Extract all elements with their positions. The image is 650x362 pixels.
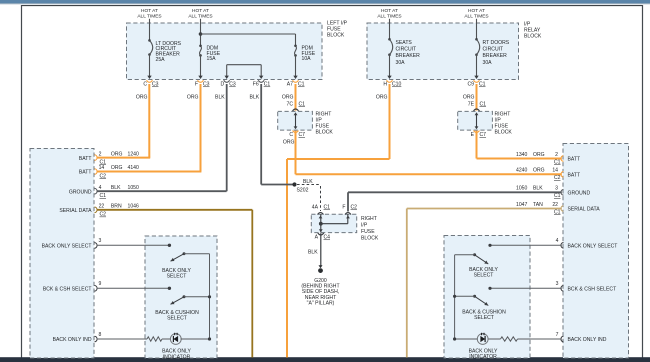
svg-text:ORG: ORG bbox=[283, 140, 295, 146]
svg-text:1050: 1050 bbox=[128, 185, 139, 191]
switch: back only select (right) bbox=[473, 253, 476, 256]
wire ORG 1240: LT DOORS breaker to left module BATT pin 2 bbox=[148, 84, 150, 158]
svg-text:C2: C2 bbox=[351, 205, 358, 211]
node: DDM feed junction bbox=[199, 32, 203, 36]
svg-text:BATT: BATT bbox=[568, 173, 581, 179]
wire BLK (dashed): S202 to right I/P fuse block 4A-C1 bbox=[297, 184, 321, 186]
svg-text:F: F bbox=[342, 205, 345, 211]
svg-text:22: 22 bbox=[99, 204, 105, 210]
svg-text:C1: C1 bbox=[299, 101, 306, 107]
svg-text:RT DOORS: RT DOORS bbox=[483, 40, 510, 46]
node: ground bus junction bbox=[319, 222, 323, 226]
svg-text:"A" PILLAR): "A" PILLAR) bbox=[307, 300, 335, 306]
wire: through left segment of right I/P fuse block bbox=[295, 113, 297, 129]
left seat switch assembly box bbox=[145, 236, 217, 358]
left module pin 14 BATT ORG 4140 bbox=[95, 169, 98, 175]
svg-text:SERIAL DATA: SERIAL DATA bbox=[568, 207, 601, 213]
left module pin 4 GROUND BLK 1050 bbox=[95, 188, 98, 194]
svg-text:7E: 7E bbox=[468, 101, 475, 107]
svg-text:BLOCK: BLOCK bbox=[495, 130, 513, 136]
wire BLK 1050: left module GROUND pin 4 up to D-C3 bbox=[97, 190, 227, 192]
svg-text:30A: 30A bbox=[483, 60, 493, 66]
pin F connector C3 exit bbox=[198, 80, 204, 82]
right module pin 3 BCK &amp; CSH SELECT bbox=[561, 286, 564, 292]
wire ORG 4240: right I/P fuse block C-C7 to right module BATT pin 14 bbox=[295, 131, 297, 175]
svg-text:BLK: BLK bbox=[215, 95, 225, 101]
svg-text:SELECT: SELECT bbox=[474, 315, 494, 321]
svg-text:22: 22 bbox=[552, 202, 558, 208]
svg-text:INDICATOR: INDICATOR bbox=[469, 354, 497, 360]
fuse DDM 15A bbox=[200, 19, 202, 46]
svg-text:4: 4 bbox=[556, 238, 559, 244]
left module pin 3 BACK ONLY SELECT bbox=[95, 243, 98, 249]
left module pin 8 BACK ONLY IND bbox=[95, 336, 98, 342]
left module pin 2 BATT ORG 1240 bbox=[95, 155, 98, 161]
svg-text:14: 14 bbox=[552, 168, 558, 174]
svg-text:BATT: BATT bbox=[568, 157, 581, 163]
svg-text:HOT AT: HOT AT bbox=[192, 8, 209, 14]
right module pin 2 BATT ORG 1340 bbox=[561, 156, 564, 162]
svg-text:ORG: ORG bbox=[463, 95, 475, 101]
svg-text:BLK: BLK bbox=[308, 250, 318, 256]
svg-text:ORG: ORG bbox=[376, 95, 388, 101]
svg-text:FUSE: FUSE bbox=[361, 229, 375, 235]
svg-text:1047: 1047 bbox=[516, 202, 527, 208]
wire: right module pin 7 to back only indicator bbox=[518, 338, 562, 340]
svg-text:BCK & CSH SELECT: BCK & CSH SELECT bbox=[568, 287, 617, 293]
fuse PDM 10A bbox=[295, 34, 297, 46]
node: bus end at indicator (right) bbox=[453, 337, 456, 340]
wire BLK: A-C4 to ground G200 bbox=[320, 233, 322, 266]
svg-text:1050: 1050 bbox=[516, 186, 527, 192]
wire BLK: F6-C1 down to splice S202 bbox=[260, 84, 262, 185]
switch: back only select (left) bbox=[183, 252, 186, 255]
svg-text:C: C bbox=[143, 82, 147, 88]
svg-text:HOT AT: HOT AT bbox=[468, 8, 485, 14]
resistor: right indicator series resistor bbox=[501, 337, 518, 341]
svg-text:7C: 7C bbox=[286, 101, 293, 107]
svg-text:C3: C3 bbox=[203, 82, 210, 88]
LED: back only indicator (left) bbox=[170, 334, 181, 345]
node: bus junction at back & cushion switch (left) bbox=[208, 295, 211, 298]
svg-text:SEATS: SEATS bbox=[396, 40, 413, 46]
svg-text:BLOCK: BLOCK bbox=[316, 130, 334, 136]
wire: left module pin 8 to back only indicator bbox=[97, 338, 148, 340]
svg-text:3: 3 bbox=[555, 186, 558, 192]
svg-text:SELECT: SELECT bbox=[474, 272, 494, 278]
right module pin 22 SERIAL DATA TAN 1047 bbox=[561, 206, 564, 212]
svg-text:A7: A7 bbox=[287, 82, 293, 88]
svg-text:C1: C1 bbox=[298, 82, 305, 88]
svg-text:C10: C10 bbox=[392, 82, 402, 88]
svg-text:I/P: I/P bbox=[361, 223, 368, 229]
svg-text:GROUND: GROUND bbox=[568, 191, 591, 197]
svg-text:C7: C7 bbox=[480, 132, 487, 138]
wire: through right segment of right I/P fuse block bbox=[476, 113, 478, 129]
svg-text:D: D bbox=[221, 82, 225, 88]
svg-text:C2: C2 bbox=[100, 212, 107, 218]
svg-text:30A: 30A bbox=[396, 60, 406, 66]
right module pin 14 BATT ORG 4240 bbox=[561, 172, 564, 178]
svg-text:BRN: BRN bbox=[111, 204, 122, 210]
wire ORG: PDM fuse A7-C1 down to right I/P fuse block 7C-C1 bbox=[295, 84, 297, 111]
wire: right switch common bus bbox=[454, 255, 456, 339]
svg-text:BACK ONLY IND: BACK ONLY IND bbox=[568, 337, 607, 343]
svg-text:ORG: ORG bbox=[111, 165, 123, 171]
svg-text:ORG: ORG bbox=[282, 95, 294, 101]
svg-text:2: 2 bbox=[555, 152, 558, 158]
svg-text:BACK ONLY SELECT: BACK ONLY SELECT bbox=[568, 244, 618, 250]
wire: right module pin 4 to back only select switch bbox=[490, 244, 562, 246]
svg-text:ORG: ORG bbox=[187, 95, 199, 101]
svg-text:25A: 25A bbox=[156, 57, 166, 63]
svg-text:ORG: ORG bbox=[533, 168, 545, 174]
pin D connector C3 exit bbox=[224, 80, 230, 82]
svg-text:C2: C2 bbox=[100, 173, 107, 179]
svg-text:4140: 4140 bbox=[128, 165, 139, 171]
svg-text:4240: 4240 bbox=[516, 168, 527, 174]
svg-text:1046: 1046 bbox=[128, 204, 139, 210]
pin C9 connector C1 exit bbox=[474, 80, 480, 82]
right I/P fuse block (left segment) bbox=[278, 111, 313, 130]
svg-text:1240: 1240 bbox=[128, 151, 139, 157]
wire: DDM node to PDM fuse bbox=[201, 33, 296, 35]
svg-text:C1: C1 bbox=[100, 193, 107, 199]
svg-text:10A: 10A bbox=[302, 56, 312, 62]
splice S202 bbox=[292, 182, 296, 186]
right door module connector box bbox=[563, 144, 629, 359]
I/P relay block bbox=[367, 23, 519, 80]
svg-text:14: 14 bbox=[99, 165, 105, 171]
svg-text:C1: C1 bbox=[554, 159, 561, 165]
wire BLK 1050: right module GROUND pin 3 to F-C2 bbox=[348, 191, 562, 193]
svg-text:BACK ONLY IND: BACK ONLY IND bbox=[53, 337, 92, 343]
svg-text:E: E bbox=[471, 132, 475, 138]
left door module connector box bbox=[30, 149, 94, 359]
wire: internal ground bus of right I/P fuse block bbox=[320, 214, 322, 232]
wire: internal link D-C3 to F6-C1 bbox=[227, 64, 262, 66]
svg-text:CIRCUIT: CIRCUIT bbox=[396, 47, 417, 53]
ground G200 bbox=[319, 265, 323, 268]
svg-text:C1: C1 bbox=[554, 209, 561, 215]
svg-text:RIGHT: RIGHT bbox=[361, 216, 377, 222]
svg-text:HOT AT: HOT AT bbox=[381, 8, 398, 14]
resistor: left indicator series resistor bbox=[147, 337, 162, 341]
wire ORG: SEATS breaker H-C10 down, left and off-page bottom bbox=[389, 84, 391, 159]
svg-text:C3: C3 bbox=[229, 82, 236, 88]
node: bus junction at back & cushion switch (right) bbox=[453, 295, 456, 298]
svg-text:SERIAL DATA: SERIAL DATA bbox=[59, 208, 92, 214]
svg-text:C1: C1 bbox=[324, 205, 331, 211]
circuit breaker LT DOORS 25A bbox=[149, 19, 151, 41]
svg-text:CIRCUIT: CIRCUIT bbox=[483, 47, 504, 53]
svg-text:GROUND: GROUND bbox=[69, 189, 92, 195]
wire: left module pin 3 to back only select switch bbox=[97, 244, 170, 246]
left I/P fuse block bbox=[127, 23, 323, 80]
svg-text:SELECT: SELECT bbox=[167, 316, 187, 322]
svg-text:ORG: ORG bbox=[533, 152, 545, 158]
switch: back & cushion select (left) bbox=[183, 295, 186, 298]
svg-text:C2: C2 bbox=[554, 175, 561, 181]
right module pin 3 GROUND BLK 1050 bbox=[561, 190, 564, 196]
svg-text:1340: 1340 bbox=[516, 152, 527, 158]
svg-text:H: H bbox=[383, 82, 387, 88]
svg-text:SELECT: SELECT bbox=[167, 274, 187, 280]
wire TAN 1047: right module SERIAL DATA pin 22, off-page bottom bbox=[407, 208, 562, 210]
wire ORG 4140: DDM fuse to left module BATT pin 14 bbox=[200, 84, 202, 172]
svg-text:ORG: ORG bbox=[136, 95, 148, 101]
svg-text:S202: S202 bbox=[297, 188, 309, 194]
svg-text:BLOCK: BLOCK bbox=[361, 236, 379, 242]
svg-text:C1: C1 bbox=[480, 101, 487, 107]
svg-text:BLK: BLK bbox=[250, 95, 260, 101]
wire BRN 1046: left module SERIAL DATA pin 22, off-page bottom bbox=[97, 209, 253, 211]
right module pin 7 BACK ONLY IND bbox=[561, 336, 564, 342]
svg-text:3: 3 bbox=[99, 238, 102, 244]
svg-text:9: 9 bbox=[99, 281, 102, 287]
node: bus end at indicator (left) bbox=[208, 337, 211, 340]
right module pin 4 BACK ONLY SELECT bbox=[561, 243, 564, 249]
pin A connector C4 exit bbox=[319, 229, 323, 232]
svg-text:A: A bbox=[315, 235, 319, 241]
wire: left module pin 9 to back & cushion select switch bbox=[97, 287, 170, 289]
svg-text:C9: C9 bbox=[467, 82, 474, 88]
svg-text:C: C bbox=[289, 132, 293, 138]
right I/P fuse block (right segment) bbox=[458, 111, 493, 130]
right I/P fuse block (ground segment) bbox=[311, 214, 356, 232]
svg-text:TAN: TAN bbox=[533, 202, 543, 208]
svg-text:3: 3 bbox=[556, 281, 559, 287]
wire ORG: RT DOORS breaker C9-C1 down to right I/P fuse block 7E-C1 bbox=[476, 84, 478, 111]
pin A7 connector C1 exit bbox=[293, 80, 299, 82]
svg-text:F6: F6 bbox=[253, 82, 259, 88]
svg-text:F: F bbox=[195, 82, 198, 88]
pin H connector C10 exit bbox=[387, 80, 393, 82]
switch: back & cushion select (right) bbox=[473, 295, 476, 298]
svg-text:4A: 4A bbox=[312, 205, 319, 211]
svg-text:ORG: ORG bbox=[111, 151, 123, 157]
svg-text:BATT: BATT bbox=[79, 156, 92, 162]
svg-text:C4: C4 bbox=[324, 235, 331, 241]
circuit breaker RT DOORS 30A bbox=[476, 19, 478, 40]
left module pin 9 BCK &amp; CSH SELECT bbox=[95, 286, 98, 292]
svg-text:BCK & CSH SELECT: BCK & CSH SELECT bbox=[43, 287, 92, 293]
svg-text:C1: C1 bbox=[479, 82, 486, 88]
left module pin 22 SERIAL DATA BRN 1046 bbox=[95, 207, 98, 213]
LED: back only indicator (right) bbox=[477, 334, 488, 345]
svg-text:BREAKER: BREAKER bbox=[483, 53, 508, 59]
svg-text:HOT AT: HOT AT bbox=[141, 8, 158, 14]
svg-text:BLOCK: BLOCK bbox=[327, 33, 345, 39]
svg-text:BATT: BATT bbox=[79, 170, 92, 176]
svg-text:BLK: BLK bbox=[533, 186, 543, 192]
svg-text:2: 2 bbox=[99, 151, 102, 157]
svg-text:BLOCK: BLOCK bbox=[524, 34, 542, 40]
wire ORG 1340: right I/P fuse block E-C7 to right module BATT pin 2 bbox=[476, 131, 478, 159]
svg-text:BLK: BLK bbox=[111, 185, 121, 191]
svg-text:15A: 15A bbox=[207, 56, 217, 62]
svg-text:C3: C3 bbox=[152, 82, 159, 88]
svg-text:7: 7 bbox=[556, 332, 559, 338]
pin C connector C3 exit bbox=[147, 80, 153, 82]
svg-text:BACK ONLY SELECT: BACK ONLY SELECT bbox=[42, 244, 92, 250]
svg-text:BREAKER: BREAKER bbox=[396, 53, 421, 59]
svg-text:C1: C1 bbox=[554, 193, 561, 199]
svg-text:4: 4 bbox=[99, 185, 102, 191]
svg-text:INDICATOR: INDICATOR bbox=[163, 354, 191, 360]
right seat switch assembly box bbox=[444, 236, 530, 359]
svg-text:C7: C7 bbox=[299, 132, 306, 138]
circuit breaker SEATS 30A bbox=[389, 19, 391, 40]
wire: right module pin 3 to back & cushion select switch bbox=[490, 287, 562, 289]
svg-text:8: 8 bbox=[99, 332, 102, 338]
pin F6 connector C1 exit bbox=[258, 80, 264, 82]
wire: left switch common bus bbox=[209, 254, 211, 339]
svg-text:C1: C1 bbox=[264, 82, 271, 88]
